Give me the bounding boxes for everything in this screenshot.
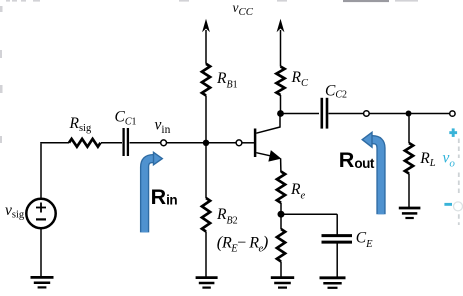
wire: emitter node to CE branch: [281, 213, 337, 215]
wire: base circle to transistor: [242, 142, 254, 144]
wire: emitter junction to RE-Re: [280, 215, 282, 230]
edge artifact marks (cropped content): [0, 0, 418, 143]
wire: junction to base circle: [206, 142, 236, 144]
node v_in (open circle): [161, 140, 167, 146]
wire: RB1 to VCC arrow: [205, 30, 207, 64]
wire: input line corner to Rsig: [40, 142, 69, 144]
wire: RB2 to ground: [205, 232, 207, 278]
wire: Rsig to CC1: [101, 142, 122, 144]
wire: output circle to RL junction: [369, 113, 405, 115]
resistor Rsig: [69, 139, 101, 147]
junction: collector node: [277, 110, 284, 117]
resistor Re: [277, 172, 285, 203]
svg-text:RC: RC: [291, 69, 309, 89]
wire: RL junction to right circle: [409, 113, 450, 115]
transistor Q1: [255, 115, 281, 172]
ground: CE: [320, 278, 346, 288]
svg-text:CC1: CC1: [115, 109, 137, 128]
resistor RB1: [202, 64, 210, 96]
resistor (RE - Re): [277, 229, 285, 262]
wire: RL to ground: [408, 174, 410, 208]
svg-text:Rin: Rin: [151, 185, 178, 209]
capacitor CE: [322, 236, 353, 243]
wire: Vsig bottom to ground: [40, 228, 42, 277]
svg-text:CE: CE: [356, 230, 373, 250]
resistor RB2: [202, 198, 210, 232]
wire: Vsig top to input line: [40, 144, 42, 199]
wire: collector to CC2: [281, 113, 320, 115]
svg-text:Re: Re: [290, 181, 305, 202]
power VCC arrow (left): [202, 19, 210, 33]
junction: input/bias node: [203, 140, 209, 146]
wire: vin node to base junction: [166, 142, 203, 144]
junction: RL top node: [406, 111, 412, 117]
svg-text:(RE− Re): (RE− Re): [217, 233, 269, 255]
arrow Rout (blue): [362, 132, 381, 214]
svg-text:Rout: Rout: [339, 148, 375, 172]
wire: RB1 lower: [205, 96, 207, 143]
svg-text:RB2: RB2: [216, 206, 238, 226]
svg-text:Rsig: Rsig: [69, 115, 92, 134]
wire: RC to VCC arrow: [280, 30, 282, 67]
wire: RL upper: [408, 114, 410, 144]
wire: Re to emitter junction: [280, 203, 282, 214]
svg-text:RL: RL: [419, 150, 435, 169]
ground: emitter branch: [271, 278, 294, 288]
svg-text:RB1: RB1: [216, 70, 238, 90]
capacitor CC2: [322, 98, 327, 129]
svg-text:vin: vin: [155, 117, 171, 137]
wire: CC2 to output circle: [329, 113, 364, 115]
node: output open circle (left): [364, 111, 370, 117]
wire: CE to ground: [336, 243, 338, 277]
label + (output, cyan): [449, 128, 457, 137]
capacitor CC1: [124, 128, 128, 156]
resistor RC: [276, 67, 284, 96]
node: base open circle: [236, 140, 242, 146]
ground: RB2: [196, 278, 218, 288]
voltage source Vsig: [26, 199, 55, 228]
wire: RE-Re to ground: [280, 262, 282, 278]
wire: CC1 to vin node: [130, 142, 161, 144]
node: output open circle (right): [450, 111, 455, 116]
wire: RC bottom: [280, 95, 282, 114]
edge artifact dashed (right): [454, 139, 463, 226]
svg-text:CC2: CC2: [325, 82, 347, 100]
power VCC arrow (right): [277, 19, 285, 33]
svg-text:vo: vo: [443, 149, 456, 169]
arrow Rin (blue): [145, 152, 163, 232]
junction: emitter node: [278, 211, 285, 218]
label - (output, cyan): [444, 203, 452, 206]
svg-text:vCC: vCC: [233, 0, 254, 18]
resistor RL: [405, 143, 413, 174]
ground: RL: [399, 208, 421, 218]
ground: Vsig: [31, 277, 54, 287]
svg-text:vsig: vsig: [5, 202, 25, 221]
wire: RB2 upper: [205, 143, 207, 198]
